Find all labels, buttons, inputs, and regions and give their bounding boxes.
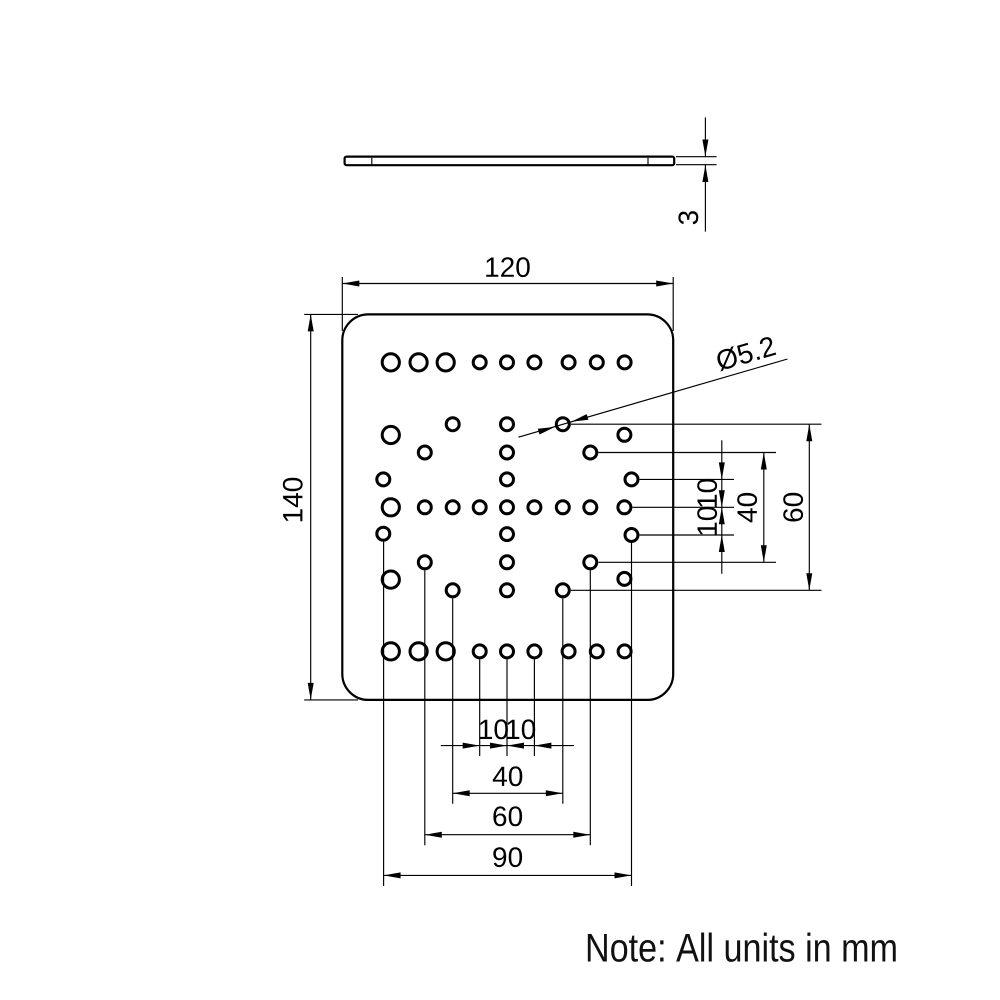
side view left tangent tick	[371, 158, 373, 165]
dimension 140 extension lines	[304, 314, 358, 700]
note text	[588, 933, 896, 962]
dimension 40 right	[737, 453, 767, 563]
dimension 40 bottom	[453, 766, 563, 796]
right extension lines from holes	[571, 424, 822, 590]
bottom extension lines from holes	[384, 542, 632, 886]
holes row9	[382, 643, 631, 660]
holes row8	[382, 571, 631, 597]
dimension 120 dim line with arrows	[342, 281, 673, 287]
dimension 3 extension lines	[676, 157, 717, 165]
dimension 120 text	[486, 257, 530, 277]
plate outline main view	[342, 314, 673, 700]
plate side view outline	[345, 157, 675, 166]
dimension 140 dim line with arrows	[308, 314, 314, 700]
holes row6	[377, 527, 638, 541]
side view right tangent tick	[647, 158, 649, 165]
holes row4	[377, 473, 638, 486]
dimension 10 10 bottom	[441, 719, 574, 748]
dimension 140 text	[283, 478, 303, 522]
holes row2	[382, 418, 631, 444]
dimension 10 10 right	[697, 440, 725, 574]
dimension 60 bottom	[425, 806, 591, 837]
dimension 90 bottom	[384, 847, 632, 878]
leader line diameter 5.2 with arrows	[518, 359, 787, 437]
dimension 60 right	[783, 424, 812, 590]
leader text diameter 5.2	[715, 335, 777, 371]
holes row1	[382, 354, 631, 371]
holes row5 middle	[382, 499, 631, 516]
dimension 3 dim line lower with arrow	[702, 165, 708, 232]
dimension 3 text	[678, 211, 698, 224]
dimension 120 extension lines	[342, 277, 673, 331]
dimension 3 dim line upper with arrow	[702, 118, 708, 157]
holes row3	[418, 446, 597, 459]
holes row7	[418, 556, 597, 569]
